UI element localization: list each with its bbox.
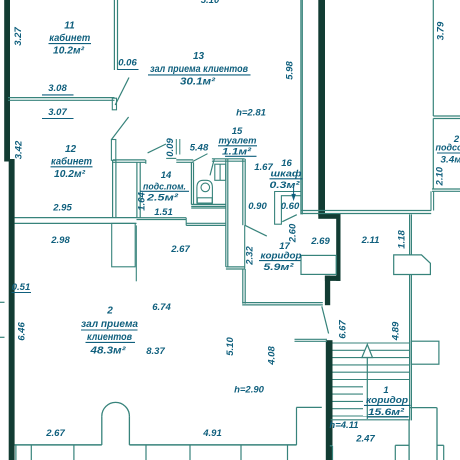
svg-text:5.9м²: 5.9м² [264,262,295,273]
svg-text:зал приема: зал приема [81,319,138,330]
svg-text:14: 14 [161,170,172,181]
svg-text:3.27: 3.27 [13,27,24,46]
svg-text:3.07: 3.07 [48,107,67,118]
svg-text:0.09: 0.09 [165,138,176,157]
svg-text:30.1м²: 30.1м² [180,77,216,88]
svg-text:h=2.90: h=2.90 [234,385,265,396]
svg-text:2.10: 2.10 [434,166,445,186]
svg-text:2.47: 2.47 [355,434,375,445]
svg-text:11: 11 [64,21,75,32]
svg-text:4.89: 4.89 [391,321,402,341]
svg-text:подсо: подсо [436,142,460,153]
svg-text:h=4.11: h=4.11 [329,420,358,431]
svg-text:2: 2 [106,306,113,317]
svg-text:0.60: 0.60 [281,201,300,212]
svg-text:12: 12 [65,144,77,155]
svg-text:4.08: 4.08 [267,346,278,366]
svg-text:шкаф: шкаф [271,169,303,180]
svg-text:2.67: 2.67 [170,244,190,255]
svg-text:зал приема клиентов: зал приема клиентов [150,64,248,75]
svg-text:10.2м²: 10.2м² [53,46,85,57]
svg-text:5.10: 5.10 [201,0,220,6]
svg-text:1.18: 1.18 [397,230,408,249]
svg-text:0.90: 0.90 [248,201,267,212]
svg-text:0.51: 0.51 [12,282,31,293]
svg-text:8.37: 8.37 [146,346,165,357]
svg-text:2.32: 2.32 [245,246,256,266]
svg-text:2.11: 2.11 [361,235,380,246]
svg-text:2.69: 2.69 [310,236,330,247]
svg-text:2.60: 2.60 [288,223,299,243]
svg-text:коридор: коридор [366,395,408,406]
svg-text:h=2.81: h=2.81 [236,108,266,119]
svg-text:2.95: 2.95 [52,203,72,214]
svg-text:48.3м²: 48.3м² [89,346,126,357]
svg-text:3.79: 3.79 [436,21,447,40]
svg-text:6.46: 6.46 [17,322,28,341]
svg-text:15.6м²: 15.6м² [368,407,405,418]
svg-text:0.06: 0.06 [118,58,137,69]
svg-text:5.48: 5.48 [190,143,209,154]
svg-text:1.64: 1.64 [137,192,148,211]
svg-text:10.2м²: 10.2м² [54,169,86,180]
svg-text:коридор: коридор [261,251,302,262]
svg-text:туалет: туалет [219,136,258,147]
svg-text:16: 16 [281,158,292,169]
svg-text:клиентов: клиентов [87,332,132,343]
svg-text:5.10: 5.10 [225,337,236,356]
svg-text:6.67: 6.67 [338,320,349,339]
svg-text:кабинет: кабинет [51,155,92,167]
svg-text:3.4м: 3.4м [441,154,460,165]
svg-text:6.74: 6.74 [152,302,171,313]
svg-text:3.08: 3.08 [48,83,67,94]
svg-text:2.67: 2.67 [45,428,65,439]
svg-text:кабинет: кабинет [49,32,90,44]
svg-text:0.3м²: 0.3м² [270,180,301,191]
svg-text:1.67: 1.67 [254,162,273,173]
svg-text:2.98: 2.98 [50,235,70,246]
svg-text:2.5м²: 2.5м² [146,193,179,204]
svg-text:3.42: 3.42 [14,140,25,159]
svg-text:4.91: 4.91 [202,428,222,439]
svg-text:13: 13 [193,51,205,62]
svg-text:5.98: 5.98 [285,61,296,80]
svg-text:1.51: 1.51 [154,207,173,218]
